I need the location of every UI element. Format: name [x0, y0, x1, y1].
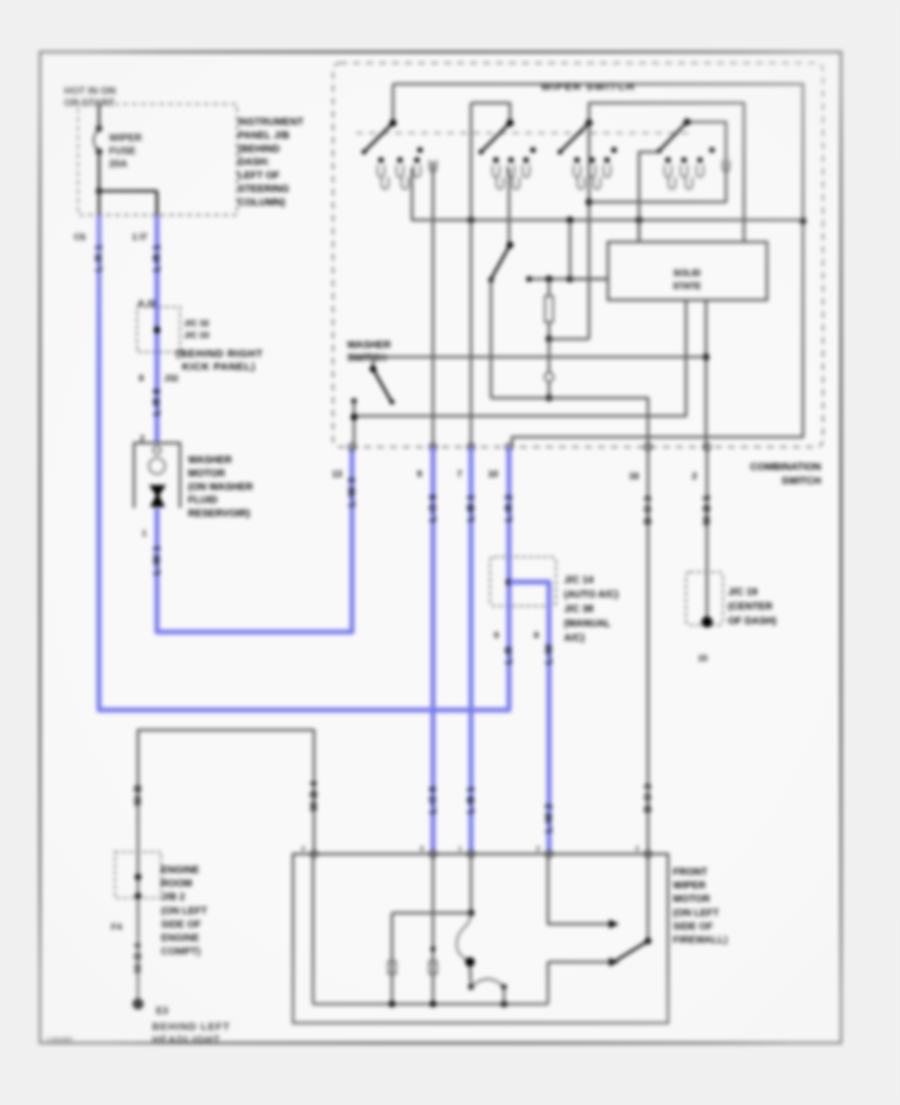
svg-text:SWITCH: SWITCH	[347, 353, 386, 364]
switch contact	[574, 157, 580, 163]
wire: parallel leg down	[391, 913, 394, 1004]
svg-text:L-B 1: L-B 1	[466, 786, 477, 814]
wire: group3 vertical to resistor network	[588, 123, 591, 339]
node at y398	[546, 395, 553, 402]
wire: resistor bottom to 589 leg	[549, 338, 589, 341]
switch contact	[589, 157, 595, 163]
wire: +2 winding leg	[432, 854, 435, 1004]
wire: +1 entry to motor	[470, 854, 473, 913]
svg-text:WIPER: WIPER	[109, 133, 143, 144]
svg-text:A/C): A/C)	[564, 633, 585, 644]
node bus-terminal7	[468, 217, 475, 224]
wiper switch group 3-4 top rectangle	[589, 103, 744, 242]
switch contact	[397, 157, 403, 163]
wire: blue washer motor return to terminal 13	[157, 447, 352, 632]
washer motor connector bump	[153, 446, 161, 454]
svg-text:L-R 1: L-R 1	[94, 244, 105, 272]
washer motor armature circle	[149, 458, 165, 474]
svg-text:(BEHIND RIGHT: (BEHIND RIGHT	[176, 348, 263, 360]
combination switch dashed outline	[333, 63, 823, 447]
wire: gray terminal 16 to wiper motor	[647, 447, 650, 854]
wire: gray terminal 2 to J/C 19	[706, 447, 709, 572]
wire: blue terminal 9 to wiper motor	[431, 447, 436, 854]
svg-text:STATE: STATE	[673, 281, 701, 291]
wire: blue J/C14 to wiper motor +1	[547, 606, 552, 854]
fuse F1 WIPER 20A	[96, 125, 103, 132]
svg-text:L-R 2: L-R 2	[504, 494, 515, 522]
INT relay blade	[491, 245, 510, 279]
junction connector J/C14 dashed box	[490, 557, 556, 606]
second row loops	[382, 177, 389, 189]
wiper switch group 4 pivot link	[687, 122, 726, 152]
svg-text:10: 10	[488, 469, 498, 479]
arrow contact at 529	[526, 276, 532, 282]
wire: resistor bottom continues down	[548, 339, 551, 372]
wire: motor to park switch	[470, 966, 471, 987]
wire through J/C14	[507, 557, 512, 606]
wire: group2 contact drop to INT switch	[508, 168, 511, 244]
node bus-504	[501, 1001, 508, 1008]
wire: +1 feed to run contact	[548, 854, 610, 924]
wire: blue terminal 7 to wiper motor	[469, 447, 474, 854]
wire: blue J32 to washer motor	[155, 352, 160, 443]
svg-text:ENGINE: ENGINE	[161, 865, 200, 876]
svg-text:(BEHIND: (BEHIND	[238, 144, 280, 155]
wire: fuse feed inside J/B	[98, 104, 101, 128]
wire: solid state top pin from bus 639	[638, 221, 641, 242]
svg-text:(MANUAL: (MANUAL	[564, 619, 611, 630]
wire: park contact branch	[547, 962, 550, 1004]
svg-text:SWITCH: SWITCH	[782, 476, 821, 487]
node inside J32	[154, 327, 161, 334]
motor terminal bump 4	[310, 850, 317, 857]
svg-text:J/C 38: J/C 38	[564, 604, 594, 615]
node bus-392	[389, 1001, 396, 1008]
svg-text:INSTRUMENT: INSTRUMENT	[238, 117, 304, 128]
svg-text:9: 9	[417, 469, 422, 479]
wire: wiper motor ground run to E3	[138, 730, 314, 1001]
svg-text:SIDE OF: SIDE OF	[673, 921, 713, 932]
node washer contact junction	[351, 414, 358, 421]
svg-text:J32: J32	[164, 373, 178, 383]
switch pivot at x=510	[506, 119, 513, 126]
washer switch pivot	[370, 366, 377, 373]
svg-text:8: 8	[534, 630, 539, 640]
switch contact	[508, 157, 514, 163]
wiper switch group 1 feed stub	[392, 84, 395, 122]
node solid-state/washer-feed crossing	[703, 354, 710, 361]
node bus-639	[636, 217, 643, 224]
washer switch blade	[373, 369, 391, 401]
run contact arrow	[609, 920, 619, 929]
svg-text:SOLID: SOLID	[673, 268, 701, 278]
engine room J/B 2 dashed connector	[115, 852, 161, 898]
switch contact	[378, 157, 384, 163]
wire: motor internal ground bus left leg	[312, 854, 315, 1004]
svg-text:L-O 6: L-O 6	[428, 786, 439, 814]
second row loops group4	[669, 177, 676, 189]
fuse box: INSTRUMENT PANEL J/B dashed outline	[78, 104, 237, 215]
upper contact group 1	[417, 147, 423, 153]
svg-text:COMBINATION: COMBINATION	[750, 462, 821, 473]
washer pump impeller	[149, 485, 166, 507]
svg-text:A J2: A J2	[138, 298, 156, 308]
node resistor bottom	[546, 336, 553, 343]
svg-text:BEHIND LEFT: BEHIND LEFT	[152, 1021, 230, 1033]
svg-text:OF DASH): OF DASH)	[728, 616, 776, 627]
park switch blade	[617, 941, 648, 960]
node on right feed at lower bus	[800, 218, 807, 225]
wire: horizontal link y=279	[529, 278, 608, 281]
svg-text:E3: E3	[156, 1006, 169, 1017]
wire: riser from lower bus to solid state left pin	[569, 221, 572, 279]
node inside J/C14	[506, 579, 513, 586]
svg-text:8: 8	[139, 373, 144, 383]
contact loop on t9 wire	[430, 160, 437, 172]
switch blade	[560, 123, 589, 152]
svg-text:DASH:: DASH:	[238, 157, 270, 168]
switch blade	[481, 123, 510, 152]
wire: branches drop to J/B edge	[156, 191, 159, 215]
svg-text:WASHER: WASHER	[347, 340, 392, 351]
junction connector J/C19 dashed box	[686, 572, 723, 625]
wire: park arc to ground bus	[503, 987, 506, 1004]
svg-text:(AUTO A/C): (AUTO A/C)	[564, 590, 618, 601]
pass-through rect on parallel leg	[388, 961, 396, 974]
node 570 riser join	[567, 276, 574, 283]
group 4 contact	[697, 157, 703, 163]
switch contact	[604, 157, 610, 163]
node bus-433	[430, 1001, 437, 1008]
svg-text:ENGINE: ENGINE	[161, 933, 200, 944]
svg-text:MOTOR: MOTOR	[673, 894, 711, 905]
svg-text:(ON LEFT: (ON LEFT	[673, 908, 719, 919]
J/C19 joint node	[702, 617, 713, 628]
wire: blue feed C6 from fuse through long run to J/C14	[99, 215, 509, 710]
svg-text:FUSE: FUSE	[109, 146, 136, 157]
svg-text:COLUMN): COLUMN)	[238, 197, 285, 208]
wire: +S to park switch pivot	[647, 854, 650, 941]
svg-text:B-O 3: B-O 3	[643, 783, 654, 812]
washer switch pivot stub	[372, 357, 375, 369]
svg-text:L-W: L-W	[544, 644, 555, 664]
wire: solid state bottom pin to washer line	[354, 300, 686, 416]
node on group3 vertical	[586, 199, 593, 206]
solid state unit U1	[608, 242, 767, 300]
upper contact group 4	[709, 147, 715, 153]
connector bump at terminal x=471	[467, 443, 474, 450]
second row loops	[578, 177, 585, 189]
svg-text:2: 2	[140, 434, 145, 443]
park contact arrow	[609, 958, 619, 967]
motor terminal bump 6	[429, 850, 436, 857]
wire branch in J/C14	[509, 582, 549, 606]
resistor R1 body	[548, 279, 551, 296]
park switch pivot	[645, 938, 652, 945]
connector bump at terminal x=352	[348, 443, 355, 450]
svg-text:J/C 19: J/C 19	[728, 587, 758, 598]
svg-text:6: 6	[420, 844, 424, 853]
svg-text:1 I7: 1 I7	[132, 232, 147, 242]
svg-text:16: 16	[629, 471, 639, 481]
ground E3	[132, 998, 143, 1009]
svg-text:J/B 2: J/B 2	[161, 892, 185, 903]
motor terminal bump 1	[467, 850, 474, 857]
wire: top common bus of wiper switch, right leg to terminal 10	[393, 84, 803, 447]
svg-text:J/C 33: J/C 33	[184, 330, 209, 340]
svg-text:L-R: L-R	[504, 646, 515, 664]
svg-text:STEERING: STEERING	[238, 184, 289, 195]
group 4 contact	[665, 157, 671, 163]
small pass-through circle	[545, 373, 554, 382]
wire: washer switch feed line	[350, 356, 706, 359]
pass-through rect on +2 leg	[429, 961, 437, 974]
svg-text:B-O 3: B-O 3	[643, 495, 654, 524]
switch contact	[414, 157, 420, 163]
svg-text:W-B: W-B	[133, 784, 144, 805]
svg-text:MOTOR: MOTOR	[188, 468, 226, 479]
connector bump at terminal x=509	[505, 443, 512, 450]
svg-text:FLUID: FLUID	[188, 495, 217, 506]
svg-text:COMPT): COMPT)	[161, 947, 200, 958]
diagram frame border	[40, 52, 841, 1043]
svg-text:(ON LEFT: (ON LEFT	[161, 906, 207, 917]
upper contact group 3	[611, 147, 617, 153]
svg-text:F4: F4	[111, 922, 123, 933]
upper contact group 2	[530, 147, 536, 153]
svg-text:2: 2	[536, 844, 540, 853]
front wiper motor M2 box	[293, 854, 668, 1023]
switch contact	[493, 157, 499, 163]
svg-text:WIPER: WIPER	[673, 881, 707, 892]
svg-text:1: 1	[142, 529, 147, 538]
switch pivot at x=393	[389, 119, 396, 126]
wiper switch group 2 feed loop	[471, 103, 510, 122]
node motor top	[468, 910, 475, 917]
svg-text:(CENTER: (CENTER	[728, 602, 773, 613]
svg-text:FIREWALL): FIREWALL)	[673, 935, 727, 946]
svg-text:L-W 3: L-W 3	[347, 477, 358, 507]
svg-text:L-W 2: L-W 2	[544, 803, 555, 833]
node bus-570	[567, 217, 574, 224]
motor internal ground bus	[313, 1003, 548, 1006]
node in engine room J/B	[135, 874, 142, 881]
svg-text:3: 3	[635, 844, 639, 853]
svg-text:W-B 4: W-B 4	[309, 781, 320, 812]
INT relay contact node	[488, 277, 494, 283]
park switch arc	[471, 979, 504, 987]
svg-text:WASHER: WASHER	[188, 455, 233, 466]
motor terminal bump 3	[644, 850, 651, 857]
svg-text:13: 13	[332, 469, 342, 479]
second row loops	[497, 177, 504, 189]
motor armature curl	[457, 913, 471, 960]
wire: junction branch right	[99, 190, 157, 193]
svg-text:L-O 6: L-O 6	[428, 494, 439, 522]
svg-text:(ON WASHER: (ON WASHER	[188, 482, 254, 493]
motor core dot	[465, 957, 475, 967]
switch pivot at x=589	[585, 119, 592, 126]
wire: solid state left pin	[570, 278, 608, 281]
svg-text:1: 1	[458, 844, 462, 853]
washer switch contact	[351, 398, 357, 404]
switch contact	[523, 157, 529, 163]
motor terminal bump 2	[545, 850, 552, 857]
small node on +2 leg	[431, 947, 436, 952]
group 4 pivot	[683, 118, 690, 125]
connector J32 dashed box	[137, 307, 180, 352]
wire: link to terminal 16	[491, 398, 648, 447]
svg-text:15: 15	[698, 653, 708, 663]
wire: contact to terminal 13	[353, 401, 356, 447]
svg-text:W-B 5: W-B 5	[702, 495, 713, 526]
svg-text:L-R 1: L-R 1	[152, 244, 163, 272]
svg-text:SIDE OF: SIDE OF	[161, 919, 201, 930]
svg-text:L-W 1: L-W 1	[152, 545, 163, 575]
svg-text:7: 7	[457, 469, 462, 479]
svg-text:PANEL J/B: PANEL J/B	[238, 130, 289, 141]
svg-text:126085: 126085	[46, 1036, 73, 1045]
wire: group1 contact to terminal 9	[432, 162, 435, 447]
group 4 contact	[681, 157, 687, 163]
wire: node to parallel leg	[392, 912, 471, 915]
wire into J/C19	[706, 572, 709, 620]
wire: blue washer motor feed from I7	[155, 215, 160, 307]
svg-text:ROOM: ROOM	[161, 879, 192, 890]
switch blade	[364, 123, 393, 152]
svg-text:HOT IN ON: HOT IN ON	[64, 86, 116, 97]
svg-text:J/C 32: J/C 32	[184, 318, 209, 328]
node resistor top	[546, 276, 553, 283]
wire: solid state bottom pin to terminal 2	[705, 300, 708, 447]
svg-text:FRONT: FRONT	[673, 867, 707, 878]
connector bump at terminal x=433	[429, 443, 436, 450]
node 2 in engine room J/B	[135, 893, 142, 900]
svg-text:9: 9	[494, 630, 499, 640]
svg-text:RESERVOIR): RESERVOIR)	[188, 509, 250, 520]
group 4 contact box	[639, 152, 659, 242]
svg-text:C6: C6	[74, 232, 86, 242]
connector bump at terminal x=707	[703, 443, 710, 450]
svg-text:L-B 1: L-B 1	[466, 494, 477, 522]
wire through J32	[155, 307, 160, 352]
svg-text:2: 2	[692, 471, 697, 481]
wire: node to 639 riser	[589, 201, 639, 204]
svg-text:L-R 8: L-R 8	[152, 388, 163, 416]
connector bump at terminal x=648	[644, 443, 651, 450]
wire: INT contact down to bottom link	[490, 280, 493, 398]
node: fuse output junction	[96, 188, 103, 195]
wire: group1 contact riser to lower bus	[412, 168, 803, 220]
svg-text:HEADLIGHT: HEADLIGHT	[152, 1034, 220, 1046]
washer motor M1 housing	[134, 443, 180, 508]
wire: fuse output to junction	[98, 154, 101, 191]
wire: blue terminal 10 into J/C 14	[507, 447, 512, 557]
svg-text:W-B 4: W-B 4	[133, 943, 144, 974]
group 4 blade	[659, 122, 687, 151]
svg-text:KICK PANEL): KICK PANEL)	[182, 361, 256, 373]
switch gang dashed link	[356, 132, 692, 134]
INT relay switch pivot	[507, 242, 514, 249]
wire: terminal 7 riser	[470, 103, 473, 447]
svg-text:LEFT OF: LEFT OF	[238, 171, 280, 182]
svg-text:20A: 20A	[109, 159, 127, 170]
svg-text:J/C 14: J/C 14	[564, 575, 594, 586]
contact loop on group4 box edge	[723, 160, 730, 172]
